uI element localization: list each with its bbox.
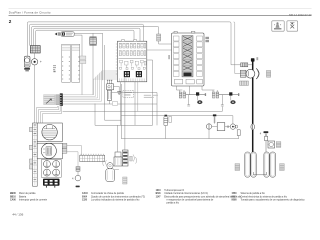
svg-text:Conmutador de chave de partida: Conmutador de chave de partida: [91, 192, 125, 195]
svg-text:0004: 0004: [82, 195, 88, 198]
starter feed striped connector: [241, 63, 248, 67]
glow plugs frame: [41, 160, 61, 178]
BSM fuse row 2: [119, 51, 145, 56]
battery cable inline connector bead: [251, 124, 255, 130]
wire connector to battery cable: [248, 64, 252, 66]
wire BSM right edge down x152.5: [147, 60, 153, 125]
wire ignition feed x102.6: [102, 33, 104, 80]
glow plug relay pin: [214, 116, 216, 123]
glow pair bottom link wire: [253, 172, 266, 175]
glow pair left label plate: [235, 164, 240, 171]
legend column 1: [10, 192, 48, 201]
svg-text:CA00: CA00: [10, 198, 17, 201]
wire label box on x82 run: [80, 56, 86, 59]
svg-text:Central electrónica do sistema: Central electrónica do sistema de partid…: [241, 195, 288, 198]
PSF1 top tab 1: [174, 31, 177, 33]
wire L2 long run to fuse assembly B: [63, 106, 223, 111]
wire L5 mid horizontal run: [95, 104, 153, 126]
svg-text:Bateria: Bateria: [19, 195, 27, 198]
wire BSM bottom down x120.5: [120, 82, 122, 126]
thermo post body box: [265, 136, 268, 140]
fuel heater bottom label: [123, 177, 127, 184]
wire W2 to BSM: [30, 24, 144, 45]
engine strip left tab 2: [29, 145, 32, 149]
legend column 4: [232, 192, 306, 201]
starter lower striped label: [240, 81, 249, 85]
battery cable terminal cap: [251, 58, 255, 61]
glow element pair 2 right tube: [270, 152, 276, 177]
wire sensor to bus: [165, 126, 167, 139]
harness locator arrow: [46, 99, 52, 104]
harness wires down to engine: [37, 106, 62, 123]
glow plug circle 2: [53, 161, 60, 168]
wire connector to oil sensor: [77, 171, 79, 175]
engine right connector tab 2: [62, 149, 67, 154]
engine connector box legs: [46, 186, 54, 188]
svg-text:BB10: BB10: [10, 196, 17, 198]
fuel heater side label: [130, 156, 133, 161]
icon box 2: [287, 21, 298, 31]
svg-text:e reaquecedor de combustivel p: e reaquecedor de combustivel para sistem…: [167, 198, 215, 201]
battery negative terminal: [24, 56, 30, 67]
svg-text:8098: 8098: [232, 199, 238, 201]
thermo post stem: [265, 133, 267, 152]
PSF1 bottom stub A: [177, 86, 185, 92]
starter pinion bracket: [256, 68, 259, 79]
ignition switch pins: [107, 80, 112, 83]
fuel filter bulb: [106, 163, 115, 182]
PSF1 name label: [205, 37, 209, 42]
wire x82 continues to harness connector: [81, 64, 83, 95]
wire ignition switch down: [109, 100, 111, 104]
harness connector (dark): [60, 93, 63, 106]
svg-text:Interruptor geral de corrente: Interruptor geral de corrente: [19, 198, 48, 201]
BSM bottom pin comb: [120, 78, 145, 81]
wire BSM bottom down x135: [134, 82, 136, 126]
harness connector pin label rows: [44, 95, 60, 105]
wire W6 starter motor clamp feed: [234, 22, 241, 74]
glow element pair 2 left inner: [265, 153, 268, 176]
fuel hose arcs: [133, 155, 137, 164]
coolant sensor side box: [169, 116, 172, 122]
thermo post cap: [264, 131, 269, 133]
starter label plate: [266, 70, 270, 77]
legend column 2: [82, 192, 145, 201]
PSF1 top tab 2: [191, 31, 195, 33]
starter motor terminal box: [240, 70, 246, 77]
chassis ground symbol: [117, 92, 121, 95]
header rule: [9, 14, 312, 16]
svg-text:8010: 8010: [232, 196, 238, 198]
glow element pair 1 right inner: [252, 153, 255, 176]
auxiliary pump double circle: [230, 124, 238, 129]
glow plug relay box: [217, 123, 225, 131]
PSF1 fuse box: [172, 33, 205, 86]
glow plug circle 4: [53, 169, 60, 176]
ignition switch body: [107, 84, 114, 90]
ignition switch lower barrel: [107, 90, 111, 100]
wire ignition feed x104.6: [104, 45, 106, 120]
svg-text:Sistema de partida a frio: Sistema de partida a frio: [241, 192, 266, 195]
wire W3 to PSF1: [32, 26, 172, 45]
svg-text:Quadro de controle dos instrum: Quadro de controle dos instrumentos comb…: [91, 195, 145, 198]
wire L6 bottom horizontal run y138.6: [121, 138, 238, 140]
wire label near fusible links: [53, 65, 56, 72]
harness wires rising to BSM: [63, 71, 118, 101]
wire connector C6 down: [92, 45, 94, 95]
svg-text:DocPlan / Forma de Circuito: DocPlan / Forma de Circuito: [9, 11, 51, 15]
svg-text:Luz piloto indicadora do siste: Luz piloto indicadora do sistema de part…: [91, 198, 140, 201]
battery terminal connector block: [30, 46, 40, 53]
fuel heater striped column: [123, 150, 129, 166]
net name label text: [144, 95, 158, 98]
battery cable cap side label: [256, 57, 258, 60]
svg-text:Motor de partida: Motor de partida: [19, 192, 36, 195]
svg-text:MR 14 2002-07-30: MR 14 2002-07-30: [289, 13, 312, 17]
PSF1 bottom row cells: [175, 79, 203, 84]
BSM top tab 2: [134, 40, 137, 42]
wire L4 from ignition column: [105, 119, 122, 121]
BSM top tab 1: [122, 40, 125, 42]
wire heater feed down x126.4: [124, 77, 126, 150]
coolant sensor body: [164, 116, 168, 125]
svg-text:+: +: [40, 60, 42, 64]
glow element pair 2 right inner: [271, 153, 275, 176]
starter pinion inner bar: [257, 70, 258, 77]
header top hairline: [9, 8, 312, 10]
engine right connector tab 1: [62, 143, 67, 148]
fuse assembly B below PSF1: [212, 92, 239, 106]
wire label box on L1: [112, 102, 117, 106]
wire BSM bottom down x137.8: [137, 82, 139, 112]
ground bar below battery negative: [24, 68, 30, 70]
fuel heater box with pump circle: [268, 141, 275, 148]
coolant sensor cap: [165, 115, 168, 117]
engine terminal strip: [80, 154, 105, 162]
fuel pump lower box: [114, 157, 122, 166]
starter motor body: [246, 69, 255, 78]
svg-text:Unidade Central de Interconexi: Unidade Central de Interconexiones (UCI …: [164, 192, 208, 195]
svg-text:Electroválvula para preaquecim: Electroválvula para preaquecimento com a…: [164, 195, 242, 198]
svg-text:BB00: BB00: [10, 193, 17, 195]
starter circle in engine: [41, 143, 56, 158]
BSM fuse row 1: [119, 43, 145, 48]
wire relay coil to box: [212, 126, 217, 128]
wire L1 from harness connector with label: [63, 104, 157, 125]
wire pump feed down x117.3: [117, 125, 119, 152]
wire W4 to BSM: [34, 28, 140, 45]
oil sensor ground bar: [76, 186, 80, 188]
starter motor internal marks: [248, 71, 255, 76]
glow element pair 1 left tube: [245, 152, 250, 177]
PSF1 bottom stub B: [189, 86, 191, 95]
maxi fuse component MF: [55, 32, 75, 37]
BSM internal elements: [120, 60, 147, 69]
alternator housing box: [37, 123, 62, 142]
engine strip left tab 3: [29, 159, 32, 163]
svg-text:1320: 1320: [82, 199, 88, 201]
svg-text:1310: 1310: [156, 190, 162, 192]
dashed function box CPH: [123, 90, 134, 97]
glow plug relay coil: [206, 124, 211, 129]
alternator circle: [42, 125, 57, 140]
BSM internal bus line: [119, 57, 147, 59]
wire MF branch down x82: [74, 35, 82, 56]
wire relay legs to bus: [209, 129, 239, 138]
engine strip left tab 1: [29, 127, 32, 131]
BSM engine relay unit box: [118, 41, 147, 82]
glow element pair 1 left inner: [246, 153, 249, 176]
wire W5 to BSM: [36, 30, 134, 45]
wire connector C6 stub up: [92, 33, 94, 37]
engine left connector strip: [33, 123, 38, 186]
svg-text:1560: 1560: [232, 193, 238, 195]
glow element pair 2 left tube: [264, 152, 269, 177]
engine dark connector box: [43, 179, 60, 186]
BSM dark connector block 2: [136, 71, 142, 77]
svg-text:2: 2: [9, 19, 12, 24]
svg-text:partida a frio: partida a frio: [167, 202, 180, 205]
svg-text:BSI1: BSI1: [156, 193, 162, 195]
glow pair right label plate: [280, 164, 285, 171]
glow plug circle 3: [43, 169, 50, 176]
battery cable thick line: [252, 61, 254, 152]
svg-text:1147: 1147: [156, 195, 162, 198]
svg-text:44 / 136: 44 / 136: [12, 213, 23, 217]
icon box 1: [272, 21, 284, 31]
connector C6 hatched box: [90, 37, 97, 45]
wire filter to heater: [115, 168, 119, 170]
PSF1 bottom stub C: [202, 86, 217, 92]
oil pressure sensor circle: [75, 175, 81, 181]
wire label box 2 on x82 run: [80, 60, 86, 63]
wire ignition to chassis ground: [114, 87, 120, 92]
starter housing box: [37, 143, 62, 159]
inline fuse label on W3: [157, 34, 161, 41]
fuel pump upper box: [115, 152, 121, 157]
svg-text:Tomada para o acoplamento de u: Tomada para o acoplamento de um equipame…: [241, 198, 306, 201]
battery positive post: [31, 53, 42, 65]
wire vertical x121.3 boundary: [120, 84, 122, 139]
fuse assembly A below PSF1: [179, 92, 206, 106]
wire battery positive down to engine/alternator: [34, 65, 36, 123]
svg-text:CA10: CA10: [82, 192, 89, 195]
BSM dark connector block 1: [124, 71, 130, 77]
BSM pin ticks left edge: [116, 44, 118, 74]
wire relay box to motor: [225, 125, 230, 128]
PSF1 middle fuse column: [182, 36, 193, 77]
wire BSM to PSF1 link: [147, 49, 172, 51]
fuel heater label plate: [276, 142, 281, 148]
fusible link box B: [72, 44, 80, 82]
wire engine tab1 to terminal strip: [67, 146, 82, 156]
oil sensor striped connector: [76, 167, 80, 172]
PSF1 right cell column: [197, 36, 203, 76]
engine strip left tab 4: [29, 165, 32, 169]
wire W1 battery positive feed to starter: [27, 22, 240, 65]
PSF1 left cell column: [173, 36, 179, 76]
filter inlet arcs: [103, 160, 107, 166]
wire engine tab2 to sensor: [67, 152, 78, 167]
fusible link box A: [62, 44, 70, 82]
relay branch connector box: [237, 130, 240, 136]
svg-text:Turbocompressor D: Turbocompressor D: [164, 189, 184, 192]
legend column 3: [156, 189, 242, 204]
wire MF to ignition column: [74, 32, 102, 34]
PSF1 side pin label left: [168, 55, 170, 59]
glow plug circle 1: [43, 161, 50, 168]
wire ignition switch output to right: [112, 93, 158, 105]
wire L3 upper run to relay branch: [121, 116, 233, 124]
glow plug relay pin cap: [213, 114, 216, 116]
glow element pair 1 right tube: [251, 152, 256, 177]
